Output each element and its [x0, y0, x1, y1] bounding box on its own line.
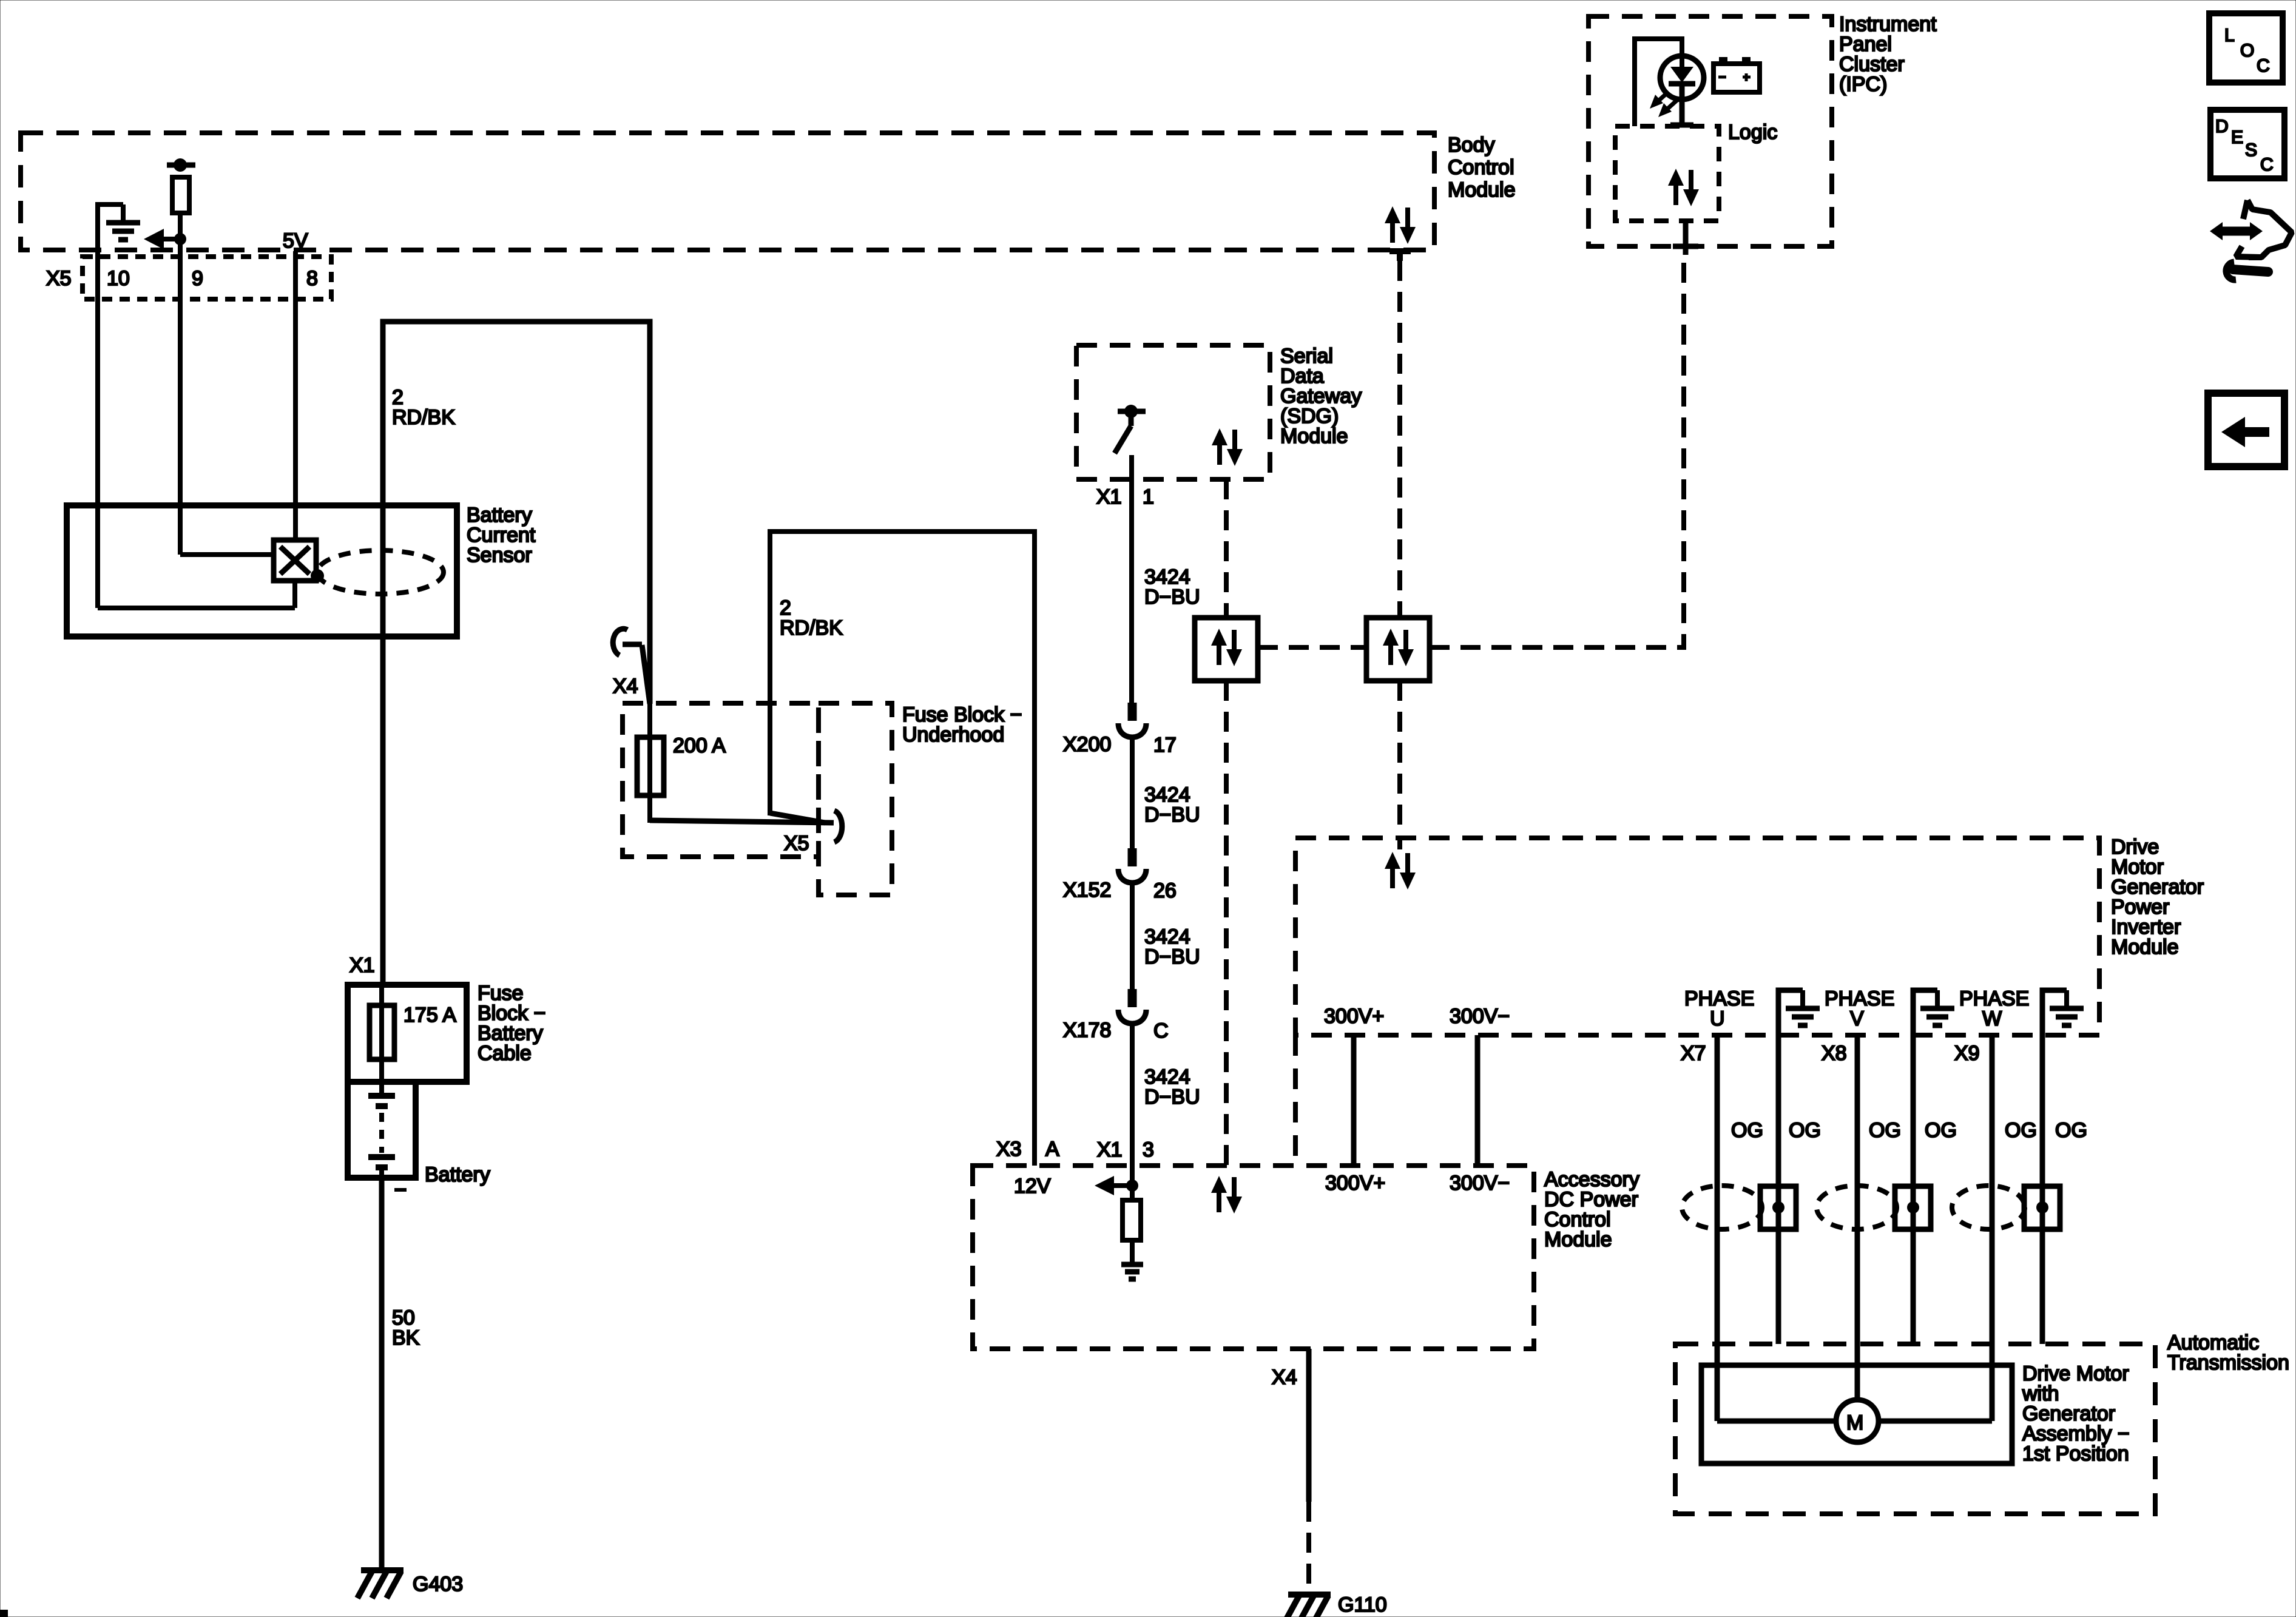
minus terminal label — [394, 1188, 407, 1192]
svg-text:C: C — [1153, 1019, 1169, 1042]
svg-text:9: 9 — [192, 267, 203, 290]
battery symbol — [368, 1093, 395, 1099]
wire resistor to pin 9 — [178, 213, 183, 555]
svg-text:1: 1 — [1143, 485, 1154, 508]
wire — [1130, 737, 1135, 848]
svg-text:X4: X4 — [1272, 1366, 1297, 1389]
svg-text:Sensor: Sensor — [467, 544, 532, 567]
svg-text:V: V — [1850, 1007, 1864, 1030]
svg-text:OG: OG — [1731, 1119, 1763, 1142]
svg-text:OG: OG — [1869, 1119, 1901, 1142]
connector X178 — [1118, 989, 1146, 1024]
IPC box — [1589, 16, 1832, 246]
svg-text:X1: X1 — [1096, 485, 1122, 508]
BCM signal arrow — [161, 237, 180, 241]
terminal X4 — [613, 629, 627, 655]
coupling ellipse V — [1817, 1186, 1897, 1229]
svg-text:Underhood: Underhood — [902, 723, 1004, 746]
svg-text:300V−: 300V− — [1450, 1172, 1510, 1195]
wire SDG pin X1-1 — [1129, 455, 1134, 703]
dashed wire right box to inverter — [1397, 681, 1402, 849]
svg-text:(IPC): (IPC) — [1839, 73, 1887, 96]
Accessory DC Power Control Module box — [973, 1166, 1534, 1349]
inverter ground W — [2042, 990, 2067, 1035]
svg-text:Module: Module — [2111, 936, 2179, 959]
IPC serial data arrows — [1668, 169, 1699, 206]
svg-text:300V+: 300V+ — [1325, 1172, 1385, 1195]
svg-text:Battery: Battery — [425, 1163, 490, 1186]
svg-text:Cable: Cable — [478, 1042, 532, 1065]
wire pin 9 to sensor element — [180, 552, 274, 557]
svg-text:X1: X1 — [1097, 1138, 1123, 1161]
svg-text:RD/BK: RD/BK — [392, 406, 455, 429]
svg-text:OG: OG — [1925, 1119, 1957, 1142]
svg-text:Module: Module — [1448, 178, 1516, 201]
svg-text:M: M — [1846, 1411, 1863, 1434]
svg-text:A: A — [1045, 1138, 1059, 1161]
svg-text:C: C — [2257, 56, 2270, 76]
svg-text:Transmission: Transmission — [2167, 1351, 2289, 1374]
svg-text:Control: Control — [1448, 156, 1514, 179]
svg-text:1st Position: 1st Position — [2022, 1442, 2129, 1465]
wire battery cable top U — [383, 322, 650, 704]
wire — [1130, 1024, 1135, 1186]
BCM serial data arrows — [1385, 206, 1416, 244]
svg-text:X178: X178 — [1063, 1019, 1111, 1042]
ground (accessory) — [1121, 1240, 1143, 1279]
connector X5 pin box — [83, 257, 331, 299]
Body Control Module box — [21, 133, 1434, 250]
svg-text:U: U — [1710, 1007, 1725, 1030]
svg-text:W: W — [1982, 1007, 2002, 1030]
battery telltale — [1714, 64, 1760, 92]
SDG module box — [1076, 345, 1270, 479]
fuse 175 A — [370, 1005, 394, 1059]
svg-text:X152: X152 — [1063, 879, 1111, 902]
motor M — [1836, 1400, 1879, 1442]
svg-text:O: O — [2240, 41, 2254, 61]
svg-text:G110: G110 — [1338, 1593, 1387, 1616]
svg-text:10: 10 — [107, 267, 130, 290]
svg-text:175 A: 175 A — [403, 1004, 456, 1027]
svg-text:X7: X7 — [1681, 1042, 1706, 1065]
svg-text:X5: X5 — [784, 832, 809, 855]
sensor element X box — [274, 540, 316, 581]
accessory serial data arrows — [1211, 1176, 1242, 1214]
svg-text:BK: BK — [392, 1326, 420, 1349]
svg-text:D−BU: D−BU — [1144, 803, 1200, 826]
wire — [1130, 883, 1135, 989]
svg-text:X200: X200 — [1063, 733, 1111, 756]
resistor R (BCM) — [172, 177, 189, 213]
serial data box left — [1195, 618, 1258, 681]
phase V wires — [1855, 1035, 1860, 1400]
Battery box — [348, 1082, 416, 1178]
svg-text:C: C — [2260, 155, 2274, 175]
SDG switch terminal — [1118, 409, 1146, 414]
BCM pull-up resistor bar with dot — [167, 163, 195, 168]
svg-text:X4: X4 — [613, 675, 638, 698]
Fuse Block Underhood box right — [819, 703, 892, 895]
Fuse Block Underhood box left — [623, 703, 819, 857]
svg-text:Module: Module — [1544, 1228, 1612, 1251]
connector X200 — [1118, 703, 1146, 737]
svg-text:X3: X3 — [996, 1138, 1022, 1161]
svg-text:26: 26 — [1153, 879, 1177, 902]
Automatic Transmission box — [1675, 1344, 2155, 1514]
junction dot — [174, 233, 186, 245]
svg-text:X5: X5 — [46, 267, 72, 290]
LED arrows — [1656, 92, 1669, 103]
svg-text:X9: X9 — [1954, 1042, 1980, 1065]
dashed link inverter to accessory — [1293, 1035, 1298, 1166]
ground G403 — [357, 1570, 403, 1598]
connector U square — [1760, 1186, 1796, 1229]
svg-text:X8: X8 — [1822, 1042, 1847, 1065]
svg-text:L: L — [2224, 25, 2235, 46]
accessory input arrow — [1110, 1183, 1132, 1188]
svg-text:S: S — [2245, 140, 2257, 160]
phase U wires — [1715, 1035, 1720, 1421]
wire battery cable through sensor — [380, 505, 386, 985]
svg-text:OG: OG — [2005, 1119, 2037, 1142]
svg-text:D−BU: D−BU — [1144, 586, 1200, 609]
inverter serial data arrows — [1385, 852, 1416, 890]
LED indicator — [1660, 56, 1704, 100]
svg-text:D−BU: D−BU — [1144, 945, 1200, 968]
svg-text:12V: 12V — [1014, 1175, 1051, 1198]
Fuse Block Battery Cable box — [348, 985, 467, 1082]
wire pin 10 to sensor — [95, 251, 100, 608]
300V wires — [1351, 1035, 1357, 1166]
svg-text:Module: Module — [1280, 425, 1348, 448]
BCM serial data T stub — [1389, 248, 1411, 254]
fuse 200 A — [637, 737, 664, 795]
junction dot at ellipse — [311, 569, 324, 582]
Drive motor assembly box — [1701, 1365, 2012, 1463]
connector V square — [1895, 1186, 1931, 1229]
phase W wires — [1990, 1035, 1995, 1421]
svg-text:300V−: 300V− — [1450, 1005, 1510, 1028]
svg-text:300V+: 300V+ — [1324, 1005, 1384, 1028]
BCM internal ground wire — [98, 204, 123, 251]
wire X4 to ground — [1306, 1349, 1312, 1502]
coupling ellipse U — [1682, 1186, 1762, 1229]
inverter ground V — [1913, 990, 1937, 1035]
svg-text:Logic: Logic — [1728, 121, 1777, 144]
svg-text:17: 17 — [1153, 734, 1177, 757]
svg-text:OG: OG — [2055, 1119, 2087, 1142]
inverter ground U — [1778, 990, 1803, 1035]
wire sensor element bottom to pin 10 — [292, 581, 297, 608]
connector X152 — [1118, 848, 1146, 883]
hand with arrow and wrench icon — [2210, 200, 2292, 280]
dashed wire between boxes — [1258, 645, 1366, 650]
coupling ellipse W — [1952, 1186, 2025, 1229]
wire riser U to accessory module — [770, 532, 1035, 1166]
motor bus wires — [1717, 1419, 1836, 1424]
svg-text:Body: Body — [1448, 133, 1495, 157]
svg-text:200 A: 200 A — [673, 734, 726, 757]
dashed wire SDG to bus box — [1224, 479, 1229, 618]
dashed wire left box to accessory — [1224, 681, 1229, 1166]
wire fuse output to X5 stud — [650, 820, 834, 823]
SDG serial data arrows — [1212, 428, 1243, 466]
svg-text:5V: 5V — [283, 229, 308, 252]
svg-text:RD/BK: RD/BK — [780, 616, 843, 640]
IPC telltale wire — [1635, 39, 1682, 126]
resistor (accessory) — [1123, 1200, 1141, 1240]
sensor coupling ellipse — [317, 550, 444, 594]
svg-text:G403: G403 — [413, 1573, 463, 1596]
wire jog to riser — [770, 813, 825, 823]
LOC box — [2209, 13, 2283, 83]
wire pin 8 (5V) to sensor — [293, 251, 298, 542]
IPC serial data pin — [1683, 221, 1689, 255]
ground G110 — [1285, 1595, 1331, 1617]
back arrow box — [2208, 393, 2284, 467]
stray mark — [0, 1610, 8, 1617]
Inverter module box — [1295, 838, 2099, 1035]
serial data box right — [1366, 618, 1430, 681]
terminal X5 (fuse block) — [834, 811, 842, 842]
svg-text:OG: OG — [1789, 1119, 1821, 1142]
Battery Current Sensor box — [67, 505, 457, 636]
svg-text:8: 8 — [306, 267, 318, 290]
BCM internal ground — [106, 204, 140, 240]
svg-text:D: D — [2215, 116, 2229, 137]
connector W square — [2024, 1186, 2060, 1229]
svg-text:X1: X1 — [349, 954, 375, 977]
svg-text:3: 3 — [1143, 1138, 1154, 1161]
svg-text:E: E — [2231, 127, 2243, 147]
wire battery negative — [379, 1178, 385, 1570]
svg-text:D−BU: D−BU — [1144, 1085, 1200, 1109]
dashed wire right box to IPC — [1430, 255, 1684, 647]
dashed wire BCM to right box — [1397, 261, 1402, 618]
DESC box — [2210, 110, 2284, 178]
Logic box — [1615, 126, 1719, 221]
